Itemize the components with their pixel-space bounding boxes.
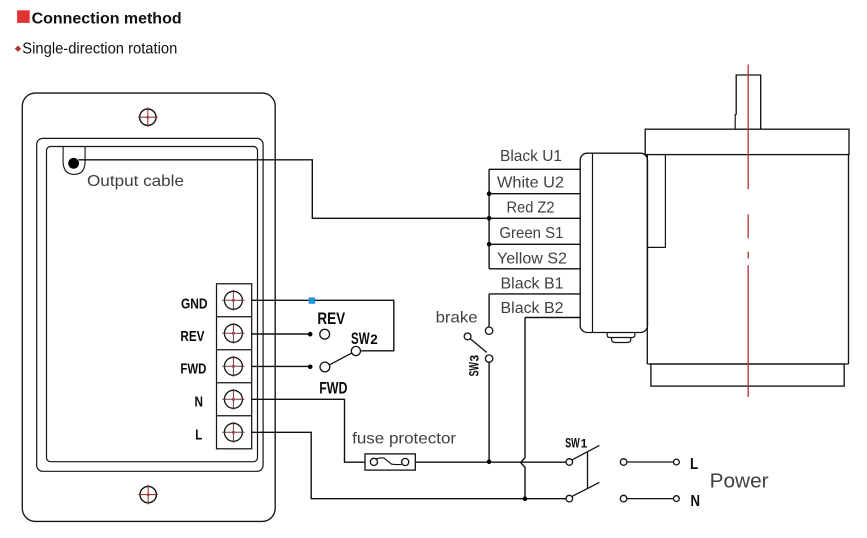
svg-text:White U2: White U2 [497,175,564,192]
fuse protector F1 [365,454,415,470]
svg-text:3: 3 [468,355,482,362]
motor base [651,364,844,386]
wire Black B1 [489,294,580,327]
motor top cap [645,129,849,154]
svg-text:Green S1: Green S1 [499,225,563,242]
wire SW3 to fuse rail [488,362,490,462]
svg-text:Black U1: Black U1 [500,148,562,165]
wire L to bottom rail [251,432,566,498]
svg-text:N: N [195,394,204,411]
screw bottom [138,485,158,505]
svg-text:N: N [691,493,701,510]
node REV dot [308,332,313,337]
svg-text:Red Z2: Red Z2 [507,200,555,217]
motor M1 [645,75,849,386]
terminal REV [222,323,244,344]
terminal N [222,389,244,410]
motor stator line [647,155,665,248]
subtitle bullet [15,46,21,52]
svg-text:L: L [690,456,698,473]
motor shaft [736,75,761,129]
terminal GND [222,290,244,311]
contact REV [320,329,330,339]
node junction Red Z2 [487,216,492,221]
motor shaft notch [735,115,736,130]
motor centerline [747,65,749,398]
controller panel outline [22,93,275,521]
wire REV to contact [251,333,308,335]
node junction B2-L rail [523,496,528,501]
wire Black B2 with hop [521,318,581,499]
output cable dot [68,158,79,169]
svg-text:GND: GND [181,295,208,312]
power terminal L pair [620,459,679,466]
switch SW3 [464,327,493,362]
wire N to fuse [251,399,365,462]
svg-text:brake: brake [436,310,478,327]
node junction SW3-rail [487,460,492,465]
svg-text:L: L [195,427,202,444]
svg-text:2: 2 [370,332,378,347]
svg-text:SW: SW [466,362,482,377]
svg-text:fuse protector: fuse protector [352,430,457,447]
svg-text:Connection method: Connection method [32,11,182,28]
svg-text:Output cable: Output cable [87,173,184,190]
svg-text:FWD: FWD [319,378,347,397]
node blue marker [309,297,315,303]
wire output cable to Red Z2 [79,160,581,219]
terminal L [222,422,244,443]
wire Green S1 [489,243,580,245]
svg-text:Power: Power [710,471,769,493]
svg-text:SW: SW [565,435,580,451]
svg-text:REV: REV [180,328,204,345]
svg-text:REV: REV [317,309,345,328]
svg-text:SW: SW [351,329,370,348]
wire fuse to SW1 [415,461,566,463]
panel bezel inner [47,147,258,462]
wire Black U1 [489,168,580,170]
power terminal N pair [620,495,679,502]
motor terminal box [580,153,647,342]
terminal block [216,284,252,449]
svg-text:Black B1: Black B1 [501,276,564,293]
motor lead rail [488,169,490,268]
contact FWD [320,362,330,372]
label SW3 [466,355,482,377]
svg-text:Black B2: Black B2 [501,300,564,317]
screw top [138,107,158,127]
switch SW1 [566,445,599,502]
terminal FWD [222,356,244,377]
wire FWD to contact [251,365,308,367]
node junction Green S1 [487,242,492,247]
svg-text:Yellow S2: Yellow S2 [497,251,567,268]
switch SW2 [329,346,360,365]
wire GND to SW2 pivot [251,300,394,351]
svg-text:FWD: FWD [180,361,206,378]
node FWD dot [308,365,313,370]
cable gland [607,333,635,338]
cable grommet notch [63,147,85,174]
wire White U2 [489,193,580,195]
panel bezel outer [37,138,263,471]
svg-text:Single-direction rotation: Single-direction rotation [22,40,177,57]
node junction White U2 [487,191,492,196]
title bullet [17,10,30,23]
motor body [647,155,848,364]
svg-text:1: 1 [581,437,588,451]
wire Yellow S2 [489,268,580,270]
